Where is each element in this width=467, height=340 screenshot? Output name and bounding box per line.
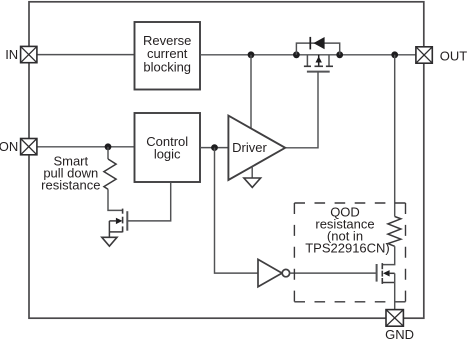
- body diode D1: [310, 37, 324, 50]
- IC boundary: [29, 2, 424, 318]
- resistor R1 smart pull down: [104, 159, 116, 189]
- label QOD resistance: [305, 205, 390, 256]
- wire driver ground stub: [251, 167, 253, 179]
- wire Q2 gate to control logic: [127, 182, 170, 221]
- block reverse current blocking: [135, 22, 201, 90]
- junction smart pull down: [105, 143, 112, 150]
- driver U1: [228, 116, 285, 180]
- svg-text:ON: ON: [0, 139, 18, 154]
- wire resistor R1 to Q2 drain: [108, 189, 122, 210]
- pin GND: [386, 310, 403, 327]
- pass transistor Q1: [304, 55, 333, 72]
- pin IN: [21, 46, 37, 62]
- wire body diode bridge: [296, 43, 339, 55]
- junction driver input: [211, 144, 218, 151]
- wire VIN bus to OUT: [200, 54, 416, 56]
- inverter U2: [258, 259, 290, 286]
- wire IN to reverse current blocking: [37, 54, 135, 56]
- junction driver supply: [248, 51, 255, 58]
- svg-text:OUT: OUT: [440, 48, 467, 63]
- label smart pull down resistance: [41, 153, 100, 192]
- transistor Q3 QOD: [377, 263, 395, 284]
- wire QOD branch down: [394, 55, 396, 217]
- transistor Q2 smart pull down: [109, 209, 127, 238]
- pin OUT: [416, 47, 432, 63]
- wire driver supply: [250, 55, 252, 129]
- pin ON: [21, 139, 37, 155]
- svg-text:blocking: blocking: [143, 59, 191, 74]
- svg-text:TPS22916CN): TPS22916CN): [305, 241, 390, 256]
- svg-text:IN: IN: [5, 47, 18, 62]
- resistor R2 QOD: [388, 217, 401, 247]
- wire driver output to Q1 gate: [285, 72, 318, 148]
- junction pass FET left terminal: [293, 51, 300, 58]
- block control logic: [135, 113, 201, 182]
- svg-text:resistance: resistance: [41, 177, 100, 192]
- wire control logic to driver: [200, 147, 229, 149]
- wire driver input branch to inverter: [215, 148, 259, 274]
- svg-text:logic: logic: [154, 147, 181, 162]
- dashed box QOD: [294, 203, 405, 302]
- wire ON to control logic: [37, 146, 135, 148]
- wire Q3 source to GND: [394, 273, 396, 310]
- junction QOD branch: [391, 51, 398, 58]
- wire junction to resistor R1: [107, 147, 109, 159]
- svg-text:GND: GND: [385, 327, 414, 340]
- wire inverter to Q3 gate: [289, 272, 376, 274]
- junction pass FET right terminal: [336, 51, 343, 58]
- svg-text:Driver: Driver: [232, 140, 267, 155]
- wire resistor R2 to Q3 drain: [382, 246, 394, 264]
- ground smart pull down: [102, 237, 117, 246]
- ground driver: [244, 178, 261, 187]
